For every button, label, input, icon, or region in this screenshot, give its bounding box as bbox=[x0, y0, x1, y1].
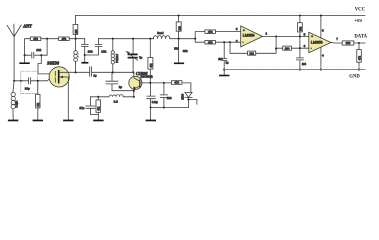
resistor emitter 471 vertical bbox=[97, 97, 99, 120]
wire dotted guide top bbox=[75, 12, 365, 14]
node input splitter bbox=[194, 38, 196, 40]
wire caps bottom bus bbox=[151, 108, 189, 120]
svg-text:+: + bbox=[243, 28, 245, 32]
inductor drain choke bbox=[75, 39, 77, 51]
resistor 472 pulldown bbox=[358, 43, 360, 70]
resistor stage-1 supply vertical bbox=[73, 24, 78, 34]
wire VCC rail bbox=[75, 15, 365, 17]
svg-text:3.3μ: 3.3μ bbox=[152, 100, 158, 104]
node antenna-wire bbox=[13, 80, 15, 82]
svg-text:473: 473 bbox=[62, 37, 67, 41]
wire pin8 bbox=[320, 16, 322, 39]
capacitor 102 bbox=[160, 83, 167, 108]
svg-text:27p: 27p bbox=[79, 106, 84, 110]
svg-text:LM358: LM358 bbox=[311, 40, 323, 44]
node emitter coil tap bbox=[133, 96, 135, 98]
node data bbox=[358, 42, 360, 44]
svg-text:GND: GND bbox=[349, 74, 360, 79]
node 102 tap bbox=[163, 82, 165, 84]
resistor R2 473 bbox=[59, 37, 70, 41]
wire pin4 bbox=[320, 48, 322, 70]
svg-text:104: 104 bbox=[302, 63, 307, 66]
svg-text:2p: 2p bbox=[119, 85, 123, 89]
wire gate line bbox=[14, 79, 55, 80]
resistor gate bias 471 vertical bbox=[37, 81, 39, 120]
op-amp U1B LM358 bbox=[309, 32, 331, 52]
svg-text:ANT: ANT bbox=[22, 23, 32, 28]
capacitor 33p series bbox=[29, 78, 31, 84]
svg-text:562: 562 bbox=[300, 26, 303, 31]
resistor rail drop 102 vertical bbox=[178, 14, 180, 16]
node shield crossing bbox=[20, 80, 22, 82]
node emitter 2p tap bbox=[133, 90, 135, 92]
svg-text:1N60: 1N60 bbox=[182, 93, 185, 100]
wire op1 out bbox=[263, 35, 309, 37]
wire source to ground bbox=[67, 77, 69, 120]
node junction R1-R2 bbox=[46, 38, 48, 40]
wire stage-1 supply rail bbox=[25, 39, 85, 56]
capacitor 1p series bbox=[90, 67, 92, 76]
svg-text:5mH: 5mH bbox=[157, 31, 163, 35]
svg-text:-: - bbox=[311, 46, 312, 50]
resistor 104 bbox=[283, 46, 292, 50]
ground bbox=[93, 120, 103, 122]
resistor input+ 473 bbox=[205, 30, 216, 34]
node feedback junction bbox=[275, 35, 277, 37]
svg-text:3.9μH: 3.9μH bbox=[16, 101, 19, 108]
svg-text:+: + bbox=[311, 34, 313, 38]
wire DATA out bbox=[331, 42, 365, 45]
capacitor 402 vertical to ground bbox=[178, 39, 180, 63]
svg-text:-: - bbox=[243, 40, 244, 44]
svg-text:102: 102 bbox=[178, 26, 181, 31]
inductor emitter 2.2 bbox=[98, 96, 134, 98]
wire rail drop to stage-1 bbox=[74, 16, 76, 39]
ground bbox=[81, 62, 88, 64]
svg-text:102: 102 bbox=[88, 50, 93, 54]
node gate bias tap bbox=[37, 80, 39, 82]
node trimmer bottom bbox=[132, 71, 134, 73]
node cap row left bbox=[24, 54, 26, 56]
ground bbox=[146, 120, 156, 122]
node coil1 bottom bbox=[75, 71, 77, 73]
trimmer capacitor 7p bbox=[132, 38, 134, 40]
ground bbox=[8, 120, 18, 122]
resistor 222 series bbox=[342, 41, 354, 45]
wire rail gap caps bbox=[85, 39, 99, 45]
svg-text:LM358: LM358 bbox=[243, 33, 255, 37]
capacitor 3.3u bbox=[147, 83, 155, 108]
node bus 3.3u bbox=[150, 106, 152, 108]
resistor input- 473 bbox=[205, 40, 216, 44]
antenna ANT bbox=[7, 24, 21, 81]
resistor collector 472 vertical bbox=[149, 38, 151, 40]
svg-text:102: 102 bbox=[36, 48, 41, 52]
svg-text:102: 102 bbox=[101, 50, 106, 54]
ground bbox=[174, 63, 184, 65]
svg-text:472: 472 bbox=[359, 55, 362, 60]
svg-text:DATA: DATA bbox=[354, 34, 367, 39]
node op1 inv input bbox=[229, 41, 231, 43]
wire stage-2 rail bbox=[99, 38, 196, 40]
node tank bottom bbox=[112, 71, 114, 73]
capacitor 102 series bbox=[25, 52, 47, 58]
node emitter resistor tap bbox=[97, 96, 99, 98]
resistor 472 series base bbox=[171, 81, 182, 85]
svg-text:473: 473 bbox=[208, 40, 213, 44]
inductor 5mH bbox=[153, 36, 169, 39]
svg-text:473: 473 bbox=[208, 30, 213, 34]
node cap row right bbox=[40, 54, 42, 56]
capacitor 2p bbox=[106, 72, 134, 90]
svg-text:472: 472 bbox=[174, 81, 179, 85]
node bus 102 bbox=[163, 106, 165, 108]
inductor tank coil bbox=[112, 39, 114, 51]
capacitor 102 decouple B bbox=[85, 44, 102, 55]
capacitor 104 to gnd bbox=[296, 48, 303, 69]
svg-text:1p: 1p bbox=[93, 74, 97, 78]
wire GND rail bbox=[224, 69, 365, 71]
op-amp U1A LM358 bbox=[241, 26, 263, 47]
wire junction down bbox=[46, 39, 48, 56]
svg-text:103: 103 bbox=[218, 58, 223, 61]
svg-text:402: 402 bbox=[183, 49, 188, 53]
svg-text:471: 471 bbox=[37, 102, 40, 107]
svg-text:101: 101 bbox=[249, 51, 254, 55]
wire base row bbox=[140, 83, 191, 93]
svg-text:3SK38: 3SK38 bbox=[46, 61, 60, 66]
dashed shield box bbox=[21, 71, 38, 93]
svg-text:103: 103 bbox=[75, 29, 78, 34]
svg-text:+5V: +5V bbox=[354, 18, 362, 23]
node 5mH junction bbox=[178, 38, 180, 40]
wire drain run bbox=[60, 71, 134, 73]
wire bias jog to gate1 bbox=[38, 55, 55, 74]
svg-text:(2SC1906): (2SC1906) bbox=[141, 76, 153, 79]
svg-text:102: 102 bbox=[167, 96, 172, 100]
svg-text:2.2: 2.2 bbox=[114, 99, 119, 103]
resistor 562 vertical to op2+ bbox=[299, 14, 301, 16]
svg-text:104: 104 bbox=[285, 46, 290, 50]
svg-text:500: 500 bbox=[174, 48, 179, 51]
svg-text:33p: 33p bbox=[25, 86, 30, 90]
wire feedback loop bbox=[230, 36, 309, 53]
ground bbox=[63, 120, 73, 122]
capacitor 103 1u to ground bbox=[223, 41, 225, 43]
svg-text:VCC: VCC bbox=[355, 7, 366, 12]
svg-text:222: 222 bbox=[346, 41, 351, 45]
svg-text:472: 472 bbox=[150, 63, 153, 68]
node base resistor tap bbox=[149, 82, 151, 84]
node R1R2 rail junction bbox=[75, 38, 77, 40]
svg-text:FCZ10.7: FCZ10.7 bbox=[117, 53, 119, 63]
resistor R1 473 bbox=[30, 37, 41, 41]
node decouple ground join bbox=[84, 54, 86, 56]
node coil2 top bbox=[112, 38, 114, 40]
ground bbox=[24, 55, 26, 62]
svg-text:471: 471 bbox=[98, 106, 101, 111]
svg-text:473: 473 bbox=[33, 37, 38, 41]
capacitor 27p emitter bypass bbox=[86, 97, 98, 115]
ground bbox=[33, 120, 43, 122]
inductor antenna coil bbox=[13, 81, 14, 92]
svg-text:7p: 7p bbox=[139, 55, 143, 59]
resistor feedback 101 bbox=[248, 51, 256, 55]
capacitor 102 decouple A bbox=[82, 44, 89, 62]
